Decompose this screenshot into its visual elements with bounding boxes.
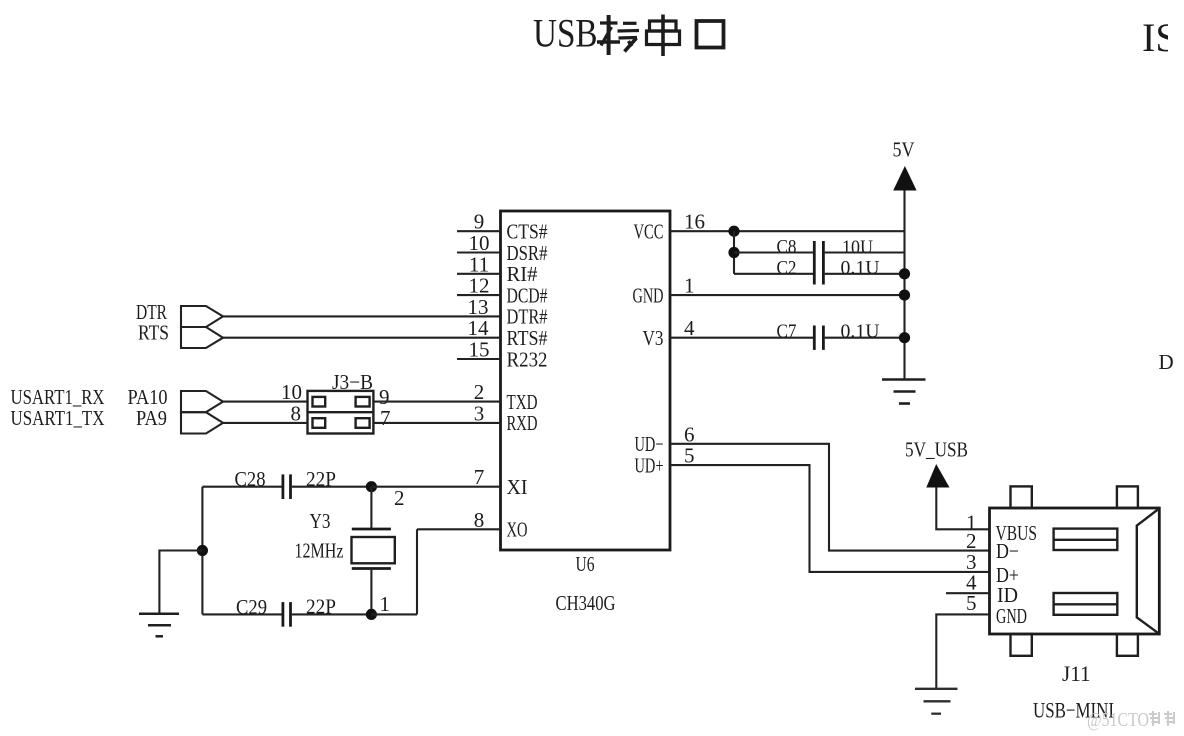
- wire VCC pin16: [670, 230, 905, 232]
- svg-text:RTS: RTS: [138, 321, 169, 345]
- connector J11 tab bottom-left: [1011, 634, 1032, 656]
- wire junction to ground: [159, 551, 202, 614]
- wire caps left bus vertical: [201, 487, 203, 615]
- wire RTS to pin14: [223, 337, 501, 339]
- svg-text:5: 5: [684, 444, 695, 468]
- svg-text:3: 3: [474, 401, 485, 425]
- wire crystal to XO node: [370, 569, 372, 615]
- wire GND pin1: [670, 294, 905, 296]
- wire C8 left: [734, 251, 813, 253]
- connector J11 tab top-left: [1011, 486, 1032, 508]
- svg-text:C8: C8: [777, 236, 797, 258]
- port flag PA9: [181, 412, 223, 433]
- svg-text:PA9: PA9: [136, 406, 167, 430]
- wire XI node to pin7: [371, 486, 500, 488]
- connector J11 tab top-right: [1117, 486, 1138, 508]
- svg-text:RXD: RXD: [507, 411, 538, 435]
- wire PA9 to J3-B: [223, 422, 308, 424]
- wire C28 left: [202, 486, 281, 488]
- IC U6 CH340G body: [501, 211, 671, 550]
- svg-text:0.1U: 0.1U: [841, 320, 881, 342]
- svg-text:D−: D−: [996, 539, 1019, 563]
- node caps-gnd junction dot: [197, 545, 208, 556]
- svg-text:CH340G: CH340G: [556, 591, 616, 615]
- svg-text:1: 1: [684, 274, 695, 298]
- wire C2 left: [734, 273, 813, 275]
- port flag DTR: [181, 306, 223, 327]
- svg-text:UD+: UD+: [635, 454, 664, 478]
- svg-text:VCC: VCC: [634, 220, 664, 244]
- pin 11 RI# stub: [457, 273, 501, 275]
- label IS (cropped at right edge): [1142, 5, 1184, 65]
- node XI junction dot: [366, 481, 377, 492]
- svg-text:1: 1: [380, 592, 391, 616]
- svg-text:4: 4: [684, 316, 695, 340]
- watermark hanzi 博客: [1149, 711, 1175, 726]
- power 5V arrow: [893, 166, 916, 191]
- connector J11 lower slot: [1054, 593, 1118, 615]
- svg-text:Y3: Y3: [310, 509, 331, 533]
- port flag PA10: [181, 391, 223, 412]
- power 5V_USB arrow: [926, 464, 949, 488]
- svg-text:XO: XO: [507, 518, 528, 542]
- svg-text:8: 8: [474, 508, 485, 532]
- ground symbol left: [139, 614, 179, 637]
- svg-text:0.1U: 0.1U: [841, 257, 881, 279]
- pin 10 DSR# stub: [457, 251, 501, 253]
- svg-text:7: 7: [474, 465, 485, 489]
- wire UD- pin6 routing: [670, 444, 990, 551]
- wire 5V rail vertical: [903, 191, 905, 380]
- pin 9 CTS# stub: [457, 230, 501, 232]
- wire C2 right: [825, 273, 905, 275]
- node C7-rail junction dot: [899, 332, 910, 343]
- title USB转串口: [533, 11, 724, 57]
- wire J3-B pin9 to TXD: [373, 401, 500, 403]
- ground symbol usb: [915, 689, 958, 714]
- svg-text:12MHz: 12MHz: [295, 538, 344, 562]
- connector J11 body: [990, 508, 1160, 634]
- svg-text:USB: USB: [533, 11, 598, 56]
- wire C29 right to XO node: [292, 613, 372, 615]
- svg-text:GND: GND: [633, 283, 664, 307]
- svg-text:R232: R232: [507, 347, 548, 371]
- jumper J3-B divider: [308, 411, 374, 413]
- hanzi 口: [697, 21, 724, 48]
- wire PA10 to J3-B: [223, 401, 308, 403]
- node XO junction dot: [366, 609, 377, 620]
- svg-text:7: 7: [380, 406, 391, 430]
- svg-text:8: 8: [291, 402, 302, 426]
- wire XO riser up: [416, 529, 418, 614]
- node C2-rail junction dot: [899, 268, 910, 279]
- svg-text:C7: C7: [777, 320, 797, 342]
- connector J11 bevel: [1137, 509, 1159, 633]
- jumper pad pin10: [313, 397, 326, 407]
- pin 12 DCD# stub: [457, 294, 501, 296]
- wire J3-B pin7 to RXD: [373, 422, 500, 424]
- svg-text:2: 2: [394, 486, 405, 510]
- wire GND pin5 to ground: [936, 614, 989, 688]
- port flag RTS: [181, 327, 223, 348]
- svg-text:GND: GND: [996, 604, 1027, 628]
- wire ID stub: [946, 592, 990, 594]
- svg-text:5V: 5V: [893, 138, 915, 162]
- node GND-rail junction dot: [899, 290, 910, 301]
- wire VCC drop to C8: [733, 231, 735, 274]
- svg-text:16: 16: [684, 210, 705, 234]
- hanzi 转: [597, 15, 639, 55]
- capacitor C8/C2 shared plates: [814, 241, 823, 285]
- svg-text:U6: U6: [576, 552, 595, 576]
- node C8 junction dot: [728, 247, 739, 258]
- wire XO node to riser: [371, 613, 417, 615]
- wire C28 right to XI node: [292, 486, 372, 488]
- jumper pad pin9: [356, 397, 370, 407]
- connector J11 tab bottom-right: [1117, 634, 1138, 656]
- crystal Y3 top plate: [352, 528, 391, 531]
- svg-text:5V_USB: 5V_USB: [905, 437, 968, 461]
- svg-text:C2: C2: [777, 257, 797, 279]
- svg-text:USART1_TX: USART1_TX: [11, 406, 105, 430]
- svg-text:@51CTO: @51CTO: [1087, 709, 1149, 731]
- wire DTR to pin13: [223, 315, 501, 317]
- wire XI node down to crystal: [370, 487, 372, 529]
- hanzi 串: [647, 15, 680, 57]
- svg-text:D: D: [1159, 350, 1174, 374]
- svg-text:XI: XI: [507, 475, 528, 499]
- jumper pad pin8: [313, 418, 326, 428]
- wire V3 pin4 to C7: [670, 337, 813, 339]
- jumper J3-B body: [308, 391, 374, 434]
- crystal Y3 body: [352, 537, 395, 563]
- ground symbol right: [882, 380, 926, 404]
- wire riser to pin8 XO: [417, 528, 501, 530]
- wire C29 left: [202, 613, 281, 615]
- svg-text:5: 5: [966, 591, 977, 615]
- connector J11 upper slot: [1054, 529, 1118, 550]
- capacitor C29 plates: [283, 602, 291, 627]
- svg-text:10: 10: [281, 380, 302, 404]
- crystal Y3 bottom plate: [352, 567, 391, 570]
- svg-text:J11: J11: [1062, 661, 1091, 686]
- capacitor C7 plates: [814, 326, 823, 350]
- svg-text:V3: V3: [643, 326, 664, 350]
- capacitor C28 plates: [283, 474, 291, 499]
- wire C8 right: [825, 251, 905, 253]
- svg-text:15: 15: [469, 338, 490, 362]
- node VCC junction dot: [728, 226, 739, 237]
- jumper pad pin7: [356, 418, 370, 428]
- wire 5V_USB to VBUS: [936, 488, 989, 530]
- svg-text:10U: 10U: [842, 236, 873, 258]
- wire C7 right: [825, 337, 905, 339]
- wire UD+ pin5 routing: [670, 465, 990, 572]
- pin 15 R232 stub: [457, 358, 501, 360]
